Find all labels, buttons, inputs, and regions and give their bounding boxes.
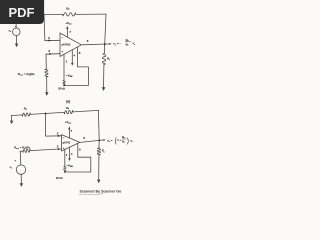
watermark underline squiggle xyxy=(79,194,103,195)
label vo equation (circuit 1) xyxy=(113,39,135,47)
wire pin1 offset null (circuit 2) xyxy=(64,150,66,167)
svg-text:20 kΩ: 20 kΩ xyxy=(56,177,63,180)
ground arrow (source 2) xyxy=(20,183,24,187)
wire pin5 vertical xyxy=(77,47,79,67)
wire Rom1 vertical xyxy=(45,54,48,92)
source VS1 circle xyxy=(12,28,20,36)
op-amp U1 triangle xyxy=(60,33,81,57)
arrow up pin7 xyxy=(66,26,68,29)
wire pin1 offset null xyxy=(63,54,65,80)
svg-text:vo = −: vo = − xyxy=(113,42,121,47)
node pin2 junction (1) xyxy=(48,40,50,42)
resistor RL (circuit 2) xyxy=(97,148,100,155)
wire feedback top (RF path) xyxy=(44,13,106,16)
svg-text:+: + xyxy=(61,50,63,54)
paper background xyxy=(0,0,149,198)
ground arrow (top-left c2) xyxy=(10,121,14,125)
arrow down pin4 (circuit 2) xyxy=(68,158,71,161)
svg-text:PDF: PDF xyxy=(9,5,35,20)
arrow up pin7 (circuit 2) xyxy=(68,126,70,129)
wire node to pin2 (circuit 2) xyxy=(45,114,61,137)
wire RL1 vertical xyxy=(104,44,105,87)
resistor RF (circuit 2) xyxy=(64,110,73,114)
resistor R1 (circuit 2) xyxy=(22,113,31,116)
wire pin4 -VEE (circuit 2) xyxy=(69,147,71,158)
svg-text:vo =: vo = xyxy=(107,138,113,143)
node offset null junction (1) xyxy=(63,84,65,86)
node offset null junction (2) xyxy=(64,171,66,173)
label vo equation (circuit 2) xyxy=(107,136,133,145)
ground arrow (RL1) xyxy=(102,87,106,91)
wire feedback right vertical (circuit 2) xyxy=(97,110,100,140)
wire pin2 input xyxy=(45,39,60,41)
node top wire junction (2) xyxy=(45,113,47,115)
resistor RF (circuit 1) xyxy=(63,13,77,16)
svg-text:−: − xyxy=(62,36,64,40)
wire feedback right vertical (output node to top) xyxy=(105,14,106,44)
svg-text:R1: R1 xyxy=(126,44,129,48)
wire pin3 input (circuit 2) xyxy=(20,149,61,151)
resistor 20k (circuit 2) xyxy=(64,166,66,171)
wire output pin6 (circuit 2) xyxy=(80,140,105,143)
source VS2 circle xyxy=(16,165,25,174)
node pin3 junction (2) xyxy=(58,148,60,150)
node output junction (1) xyxy=(104,43,106,45)
arrow output terminal (circuit 2) xyxy=(103,139,105,141)
svg-text:Scanned By Scanner Go: Scanned By Scanner Go xyxy=(80,189,123,193)
wire pin7 +Vcc (circuit 2) xyxy=(68,129,70,139)
wire offset null loop (circuit 1) xyxy=(64,67,88,86)
wire pin3 input xyxy=(46,53,60,56)
PDF badge xyxy=(0,0,44,24)
node pin3 junction (1) xyxy=(49,53,51,55)
wire pin5 vertical (circuit 2) xyxy=(77,143,79,157)
wire source bottom stub xyxy=(15,36,17,44)
svg-text:(a): (a) xyxy=(66,100,70,104)
wire output pin6 xyxy=(81,43,110,46)
wire RL2 vertical xyxy=(98,140,101,179)
arrow output terminal (circuit 1) xyxy=(109,43,111,45)
svg-text:+: + xyxy=(63,146,65,150)
svg-text:µA741: µA741 xyxy=(63,142,71,145)
resistor Rom (circuit 1) xyxy=(45,69,48,77)
wire pin7 +Vcc xyxy=(66,28,68,37)
arrow down pin4 xyxy=(71,63,74,66)
svg-text:1 +: 1 + xyxy=(117,138,121,142)
wire top-left ground stub xyxy=(10,116,12,121)
wire pin4 -VEE xyxy=(71,50,73,63)
wire source2 bottom stub xyxy=(20,174,22,183)
ground arrow (source 1) xyxy=(15,44,19,48)
svg-text:µA741C: µA741C xyxy=(61,44,70,47)
resistor RL (circuit 1) xyxy=(103,54,106,65)
node pin2 junction (2) xyxy=(58,135,60,137)
svg-text:): ) xyxy=(127,136,129,145)
svg-text:20 kΩ: 20 kΩ xyxy=(58,88,65,91)
node output junction (2) xyxy=(98,140,100,142)
wire source top stub xyxy=(15,24,17,28)
wire feedback left vertical into node xyxy=(43,15,46,41)
ground arrow (Rom1) xyxy=(45,92,49,96)
resistor Rom (circuit 2) xyxy=(23,149,31,152)
ground arrow (RL2) xyxy=(97,180,101,184)
svg-text:−: − xyxy=(63,136,65,140)
resistor 20k (circuit 1) xyxy=(63,81,65,85)
wire source2 top stub xyxy=(19,151,22,165)
wire offset null loop (circuit 2) xyxy=(65,157,91,172)
op-amp U2 triangle xyxy=(62,135,80,151)
wire top (R1-RF path) xyxy=(11,110,98,115)
